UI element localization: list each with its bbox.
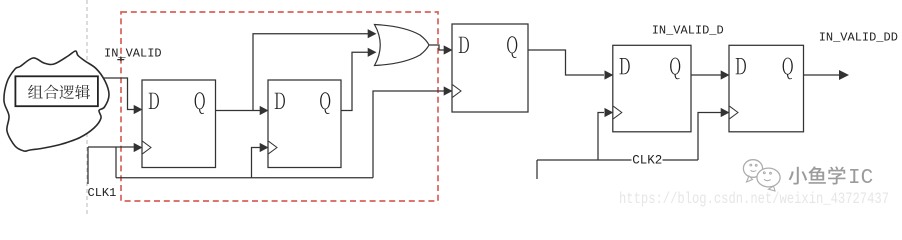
U6 pin label D [736,58,746,74]
wire FF3 Q to FF4 D [528,50,604,75]
svg-text:CLK1: CLK1 [88,186,117,200]
CLK2 stub wire [536,160,538,179]
U2 D input arrowhead [260,106,269,115]
U2 clock chevron [269,141,278,154]
U6 pin label Q [783,58,793,80]
U5 clock input arrowhead [605,108,614,117]
U4 clock input arrowhead [444,86,453,95]
svg-text:IN_VALID_DD: IN_VALID_DD [819,31,898,45]
U6 clock input arrowhead [721,108,730,117]
combinational logic cloud [4,51,109,151]
U2 pin label D [275,93,285,109]
CLK1 riser to FF2 clock [252,148,262,178]
CLK1 distribution wire horizontal [116,177,373,179]
D flip-flop U5 box [613,45,691,132]
U6 clock chevron [730,106,739,119]
CLK1 riser to FF3 clock [373,91,444,178]
wire FF2 Q to OR bottom input [341,52,369,110]
IN_VALID label tick [117,57,124,62]
clock domain boundary (gray dashed line) [86,0,88,215]
D flip-flop U1 box [142,80,216,168]
U1 D input arrowhead [134,105,143,114]
watermark text 小鱼学 [789,166,846,184]
U1 pin label Q [195,92,205,114]
svg-text:IC: IC [848,167,873,190]
U4 clock chevron [453,85,462,98]
wire OR output to FF3 D [429,45,444,50]
CLK2 riser to FF5 clock [698,113,721,161]
watermark logo chat bubbles [743,160,780,191]
CLK2 riser to FF4 clock [598,113,604,161]
svg-text:IN_VALID_D: IN_VALID_D [652,24,724,38]
wire CLK1 into FF1 clock [88,146,134,148]
U2 pin label Q [320,92,330,114]
U5 D input arrowhead [605,70,614,79]
D flip-flop U4 box [452,24,528,112]
U1 pin label D [149,93,159,109]
output arrowhead IN_VALID_DD [839,70,849,80]
wire FF5 Q output [804,74,841,76]
CLK2 wire right segment [663,159,699,161]
wire FF4 Q to FF5 D [691,74,721,76]
D flip-flop U2 box [268,80,341,168]
U4 D input arrowhead [444,45,453,54]
U2 clock input arrowhead [260,143,269,152]
svg-text:https://blog.csdn.net/weixin_4: https://blog.csdn.net/weixin_43727437 [619,190,889,208]
U5 pin label Q [670,58,680,80]
U6 D input arrowhead [721,70,730,79]
U5 clock chevron [613,106,622,119]
label 组合逻辑 [28,85,90,100]
CLK2 wire left segment [537,159,632,161]
OR gate U3 [375,25,430,66]
U4 pin label Q [507,36,517,58]
OR gate bottom input arrowhead [368,48,377,57]
wire FF1 Q to FF2 D [216,110,261,112]
CLK1 vertical stub [87,147,89,184]
svg-text:IN_VALID: IN_VALID [104,47,162,61]
wire junction riser to OR top input [253,34,369,111]
combinational logic inner box [15,76,98,106]
U1 clock chevron [143,141,152,154]
U5 pin label D [619,58,629,74]
svg-text:CLK2: CLK2 [632,153,662,167]
U4 pin label D [459,37,469,53]
OR gate top input arrowhead [368,29,377,38]
red dashed synchronizer boundary box [121,12,438,201]
wire cloud to FF1 D [104,78,134,110]
D flip-flop U6 box [729,45,804,132]
CLK1 distribution wire down [115,148,117,178]
U1 clock input arrowhead [134,143,143,152]
